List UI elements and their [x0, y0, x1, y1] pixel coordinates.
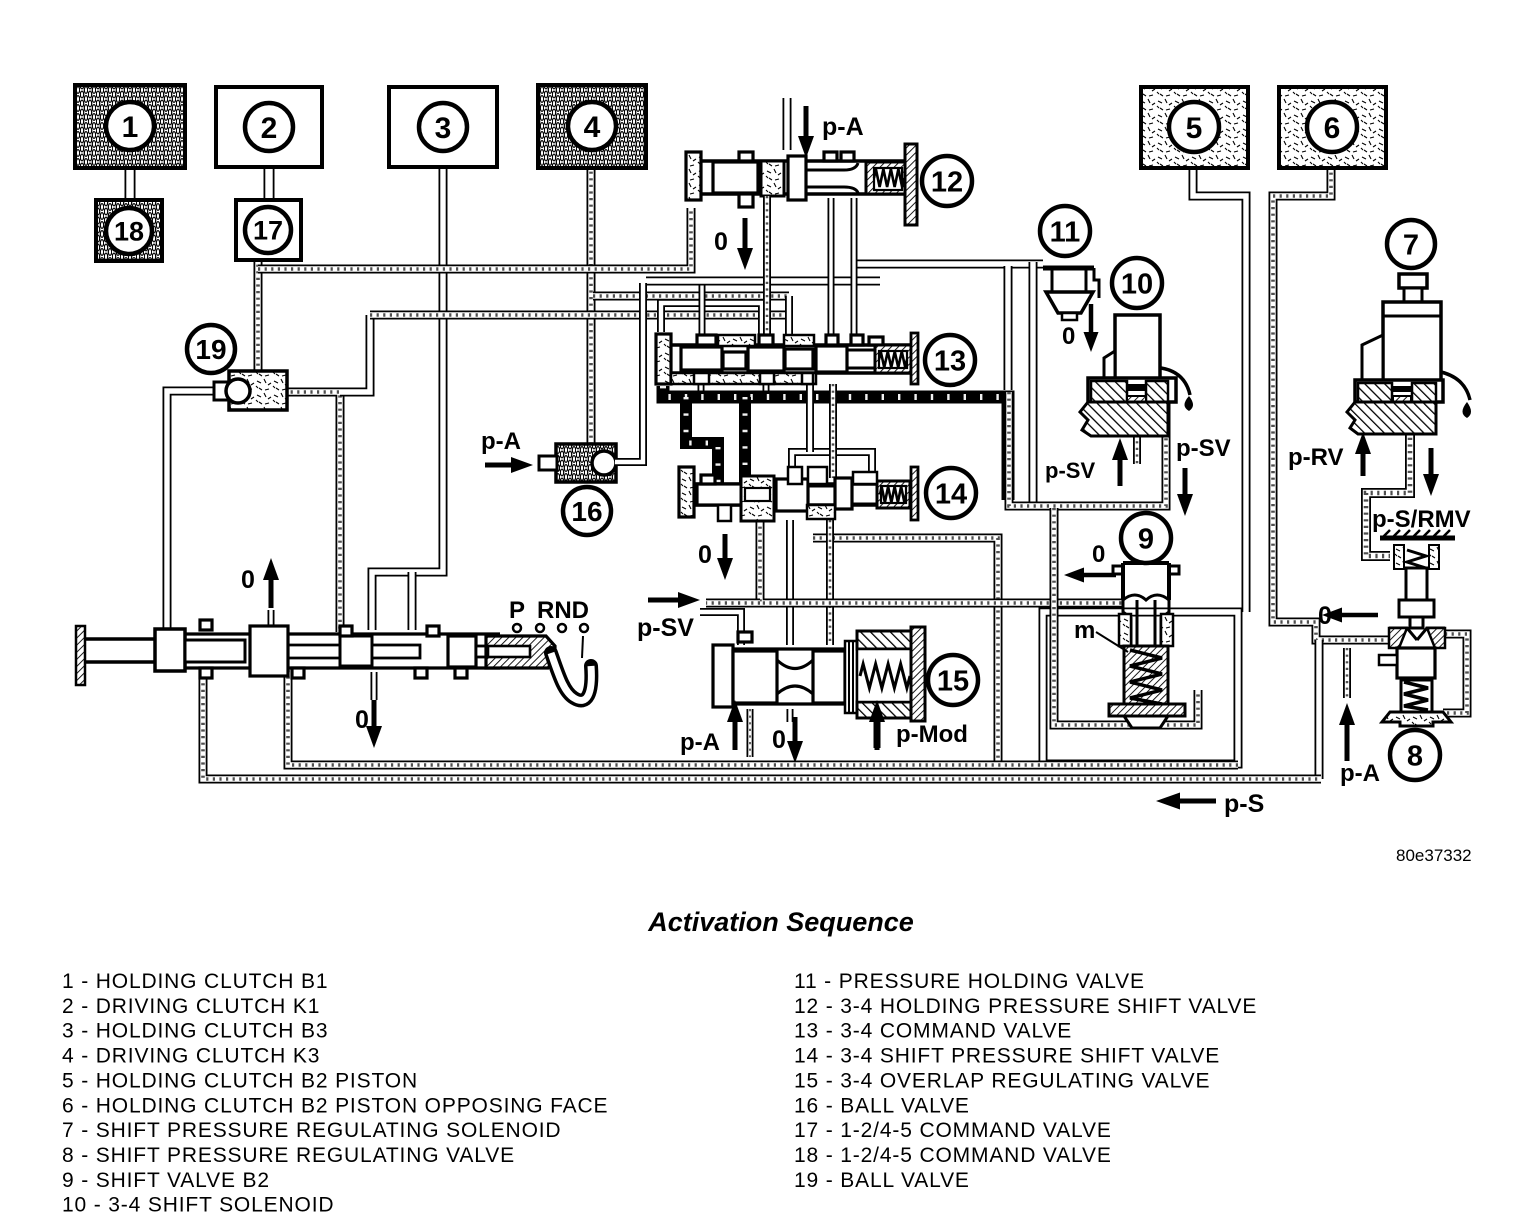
wire from box6 down to valve 8: [1273, 166, 1388, 640]
wire bottom run p-S: [203, 670, 1321, 779]
wire valve12 collar pipe down: [763, 196, 771, 336]
svg-text:11: 11: [1050, 216, 1081, 248]
3-4 shift solenoid 10: [1080, 315, 1193, 436]
legend list: [62, 970, 1257, 1217]
svg-text:p-SV: p-SV: [1176, 435, 1231, 462]
svg-text:1: 1: [122, 111, 139, 144]
ball valve 16: [539, 444, 616, 482]
label 0 below valve 15: [772, 717, 803, 763]
svg-text:4: 4: [584, 111, 601, 144]
svg-text:p-S: p-S: [1224, 790, 1264, 818]
node circle 11: [1040, 206, 1090, 256]
svg-text:14 - 3-4 SHIFT PRESSURE SHIFT: 14 - 3-4 SHIFT PRESSURE SHIFT VALVE: [794, 1045, 1220, 1068]
label down arrow right of solenoid 7: [1423, 448, 1439, 496]
node circle 8: [1390, 730, 1440, 780]
node circle 13: [925, 335, 975, 385]
holding clutch B2 piston box 5: [1141, 87, 1248, 168]
3-4 shift pressure shift valve 14: [679, 467, 918, 521]
wire valve9 enclosure outer rectangle: [1043, 612, 1238, 764]
svg-text:16: 16: [571, 496, 602, 527]
wire solenoid7 to valve8: [1366, 418, 1410, 556]
svg-text:0: 0: [1062, 323, 1075, 350]
wire dark link 13 to 14: [739, 397, 751, 490]
svg-text:p-A: p-A: [822, 113, 864, 141]
label p-A below valve 15: [680, 700, 743, 756]
wire horizontal run H1 from 17 to valve 12: [258, 208, 691, 269]
wire valve13 upper loop: [661, 281, 766, 397]
wire link 13 to 14 b: [829, 384, 837, 478]
driving clutch K1 box 2: [216, 87, 322, 167]
wire valve12 to pressure holding valve 11: [831, 198, 1043, 336]
wire valve8 p-A stub: [1343, 648, 1351, 698]
label p-A top at valve 12: [798, 106, 864, 158]
wire manual valve port down 0: [371, 672, 378, 700]
svg-text:0: 0: [241, 566, 255, 594]
svg-text:2 - DRIVING CLUTCH K1: 2 - DRIVING CLUTCH K1: [62, 995, 320, 1018]
svg-text:Activation Sequence: Activation Sequence: [647, 907, 914, 937]
svg-text:17: 17: [253, 216, 283, 246]
svg-text:9 - SHIFT VALVE B2: 9 - SHIFT VALVE B2: [62, 1169, 270, 1192]
wire valve8 right bypass: [1443, 634, 1467, 713]
svg-text:13: 13: [934, 345, 966, 377]
wire above valve12: [783, 98, 792, 150]
svg-text:RND: RND: [537, 597, 589, 624]
wire ball16 riser up to run y281: [615, 283, 643, 462]
wire from funnel 11 down to enclosure: [1008, 262, 1033, 502]
wire valve14 down to valve15 b: [826, 520, 834, 645]
wire ball19 right up to run H2: [340, 315, 370, 392]
svg-text:P: P: [509, 597, 525, 624]
wire valve15 left stub: [700, 612, 741, 645]
label 0 below valve 12: [714, 218, 753, 270]
svg-text:3: 3: [435, 112, 452, 145]
svg-text:p-SV: p-SV: [1045, 458, 1095, 483]
label p-SV down right of solenoid 10: [1176, 435, 1231, 516]
label 0 below valve 14: [698, 534, 733, 580]
label p-SV up at solenoid 10: [1045, 438, 1128, 486]
label P RND gate: [509, 597, 589, 658]
svg-text:3 - HOLDING CLUTCH B3: 3 - HOLDING CLUTCH B3: [62, 1020, 328, 1043]
svg-text:12: 12: [931, 166, 963, 198]
wire from box17 down to ball valve 19: [254, 258, 263, 374]
wire branch to manual valve port: [408, 572, 417, 630]
svg-text:1 - HOLDING CLUTCH B1: 1 - HOLDING CLUTCH B1: [62, 970, 328, 993]
svg-text:p-S/RMV: p-S/RMV: [1372, 506, 1471, 533]
svg-text:p-Mod: p-Mod: [896, 721, 968, 748]
svg-text:18: 18: [114, 217, 144, 247]
drawing number 80e37332: [1396, 846, 1472, 865]
node circle 15: [928, 655, 978, 705]
wire horizontal run H2 to valve 13: [370, 296, 789, 336]
node circle 19: [187, 325, 235, 373]
node circle 9: [1121, 513, 1171, 563]
node circle 12: [922, 156, 972, 206]
svg-text:p-A: p-A: [1340, 760, 1380, 787]
holding clutch B2 opposing face box 6: [1279, 87, 1386, 168]
svg-text:5 - HOLDING CLUTCH B2 PISTON: 5 - HOLDING CLUTCH B2 PISTON: [62, 1069, 418, 1092]
svg-text:p-RV: p-RV: [1288, 444, 1344, 471]
svg-text:2: 2: [261, 112, 278, 145]
svg-text:6: 6: [1324, 112, 1341, 145]
label p-S at bottom run: [1156, 790, 1264, 818]
label 0 at valve 11: [1062, 304, 1099, 352]
svg-text:7: 7: [1403, 229, 1419, 261]
svg-text:0: 0: [772, 726, 786, 754]
wire ball19 left loop to manual valve: [167, 391, 218, 632]
label 0 down below manual valve: [355, 700, 382, 748]
holding clutch B3 box 3: [389, 87, 497, 167]
node circle 10: [1112, 258, 1162, 308]
label 0 at valve 9: [1064, 541, 1116, 583]
svg-text:5: 5: [1186, 112, 1203, 145]
wire box1 to box18: [125, 166, 136, 202]
svg-text:15 - 3-4 OVERLAP REGULATING VA: 15 - 3-4 OVERLAP REGULATING VALVE: [794, 1069, 1210, 1092]
3-4 holding pressure shift valve 12: [686, 144, 917, 225]
ball valve 19: [214, 371, 287, 410]
svg-text:19: 19: [195, 334, 226, 365]
command valve box 17: [236, 200, 301, 260]
svg-text:m: m: [1074, 617, 1095, 644]
svg-text:6 - HOLDING CLUTCH B2 PISTON O: 6 - HOLDING CLUTCH B2 PISTON OPPOSING FA…: [62, 1094, 608, 1117]
wire solenoid10 outlet stub: [1133, 428, 1141, 464]
svg-text:10 - 3-4 SHIFT SOLENOID: 10 - 3-4 SHIFT SOLENOID: [62, 1194, 334, 1217]
label 0 up at manual valve: [241, 558, 279, 608]
wire valve15 bottom stub p-Mod: [874, 709, 881, 748]
svg-text:15: 15: [937, 665, 969, 697]
holding clutch B1 box 1: [75, 85, 185, 168]
wire valve14 right down to p-S area: [813, 538, 998, 764]
wire ball19 right down to manual valve: [284, 392, 340, 632]
wire p-SV line from valve14 to valve 9: [760, 520, 1122, 603]
wire run y281 to valve12 feeds: [646, 277, 880, 286]
svg-text:9: 9: [1138, 523, 1154, 555]
pressure holding valve 11 funnel: [1043, 268, 1099, 320]
svg-text:0: 0: [1092, 541, 1105, 568]
label p-A at valve 8: [1339, 703, 1380, 787]
wire bottom run upper: [288, 670, 1238, 765]
node circle 16: [563, 487, 611, 535]
command valve box 18: [96, 200, 162, 261]
label p-RV at solenoid 7: [1288, 432, 1371, 476]
svg-text:80e37332: 80e37332: [1396, 846, 1472, 865]
svg-text:12 - 3-4 HOLDING PRESSURE SHIF: 12 - 3-4 HOLDING PRESSURE SHIFT VALVE: [794, 995, 1257, 1018]
shift valve B2 9: [1109, 563, 1185, 728]
label 0 at valve 8: [1318, 602, 1378, 630]
svg-text:0: 0: [714, 228, 728, 256]
svg-text:8 - SHIFT PRESSURE REGULATING: 8 - SHIFT PRESSURE REGULATING VALVE: [62, 1144, 515, 1167]
wire valve9 enclosure inner speckled: [1054, 508, 1198, 725]
shift pressure regulating valve 8: [1379, 530, 1455, 726]
svg-text:0: 0: [355, 706, 369, 734]
wire solenoid10 enclosure: [1009, 392, 1166, 506]
svg-text:p-A: p-A: [680, 729, 720, 756]
title Activation Sequence: [647, 907, 914, 937]
wire from box5 down: [1193, 166, 1246, 612]
svg-text:18 - 1-2/4-5 COMMAND VALVE: 18 - 1-2/4-5 COMMAND VALVE: [794, 1144, 1112, 1167]
label p-S/RMV: [1372, 506, 1471, 533]
svg-text:4 - DRIVING CLUTCH K3: 4 - DRIVING CLUTCH K3: [62, 1045, 320, 1068]
svg-text:p-A: p-A: [481, 428, 521, 455]
wire valve15 bottom stub 0: [787, 709, 794, 722]
wire dark main pressure line: [663, 386, 1008, 500]
label p-A at ball valve 16: [481, 428, 533, 473]
svg-text:10: 10: [1121, 268, 1153, 300]
svg-text:7 - SHIFT PRESSURE REGULATING: 7 - SHIFT PRESSURE REGULATING SOLENOID: [62, 1119, 561, 1142]
svg-text:8: 8: [1407, 740, 1423, 772]
wire link 13 to 14 a: [792, 384, 872, 481]
label m with leader: [1074, 617, 1128, 652]
3-4 command valve 13: [656, 333, 918, 384]
wire dark link 13 to 14 left: [686, 397, 718, 488]
wire valve8 left feed down to p-S run: [1315, 640, 1324, 779]
svg-text:17 - 1-2/4-5 COMMAND VALVE: 17 - 1-2/4-5 COMMAND VALVE: [794, 1119, 1112, 1142]
wire from box3 down to manual valve: [372, 165, 443, 630]
svg-text:p-SV: p-SV: [637, 614, 694, 642]
wire valve15 bottom stub p-A: [747, 709, 754, 757]
svg-text:11 - PRESSURE HOLDING VALVE: 11 - PRESSURE HOLDING VALVE: [794, 970, 1145, 993]
svg-text:19 - BALL VALVE: 19 - BALL VALVE: [794, 1169, 970, 1192]
node circle 7: [1387, 220, 1435, 268]
driving clutch K3 box 4: [538, 85, 646, 168]
3-4 overlap regulating valve 15: [713, 627, 925, 721]
svg-text:16 - BALL VALVE: 16 - BALL VALVE: [794, 1094, 970, 1117]
wire manual valve port up 0: [268, 610, 275, 628]
svg-text:13 - 3-4 COMMAND VALVE: 13 - 3-4 COMMAND VALVE: [794, 1020, 1072, 1043]
wire from box4 down to ball valve 16: [591, 165, 789, 446]
svg-text:14: 14: [935, 478, 967, 510]
wire p-SV dead end: [706, 599, 760, 608]
wire box2 to box17: [264, 165, 275, 202]
node circle 14: [926, 468, 976, 518]
shift pressure regulating solenoid 7: [1347, 274, 1471, 434]
label p-Mod below valve 15: [869, 700, 968, 750]
label p-SV arrow into pipe: [637, 592, 700, 642]
svg-text:0: 0: [698, 541, 712, 569]
manual selector valve: [76, 620, 591, 700]
wire valve14 down to valve15 a: [786, 520, 794, 645]
